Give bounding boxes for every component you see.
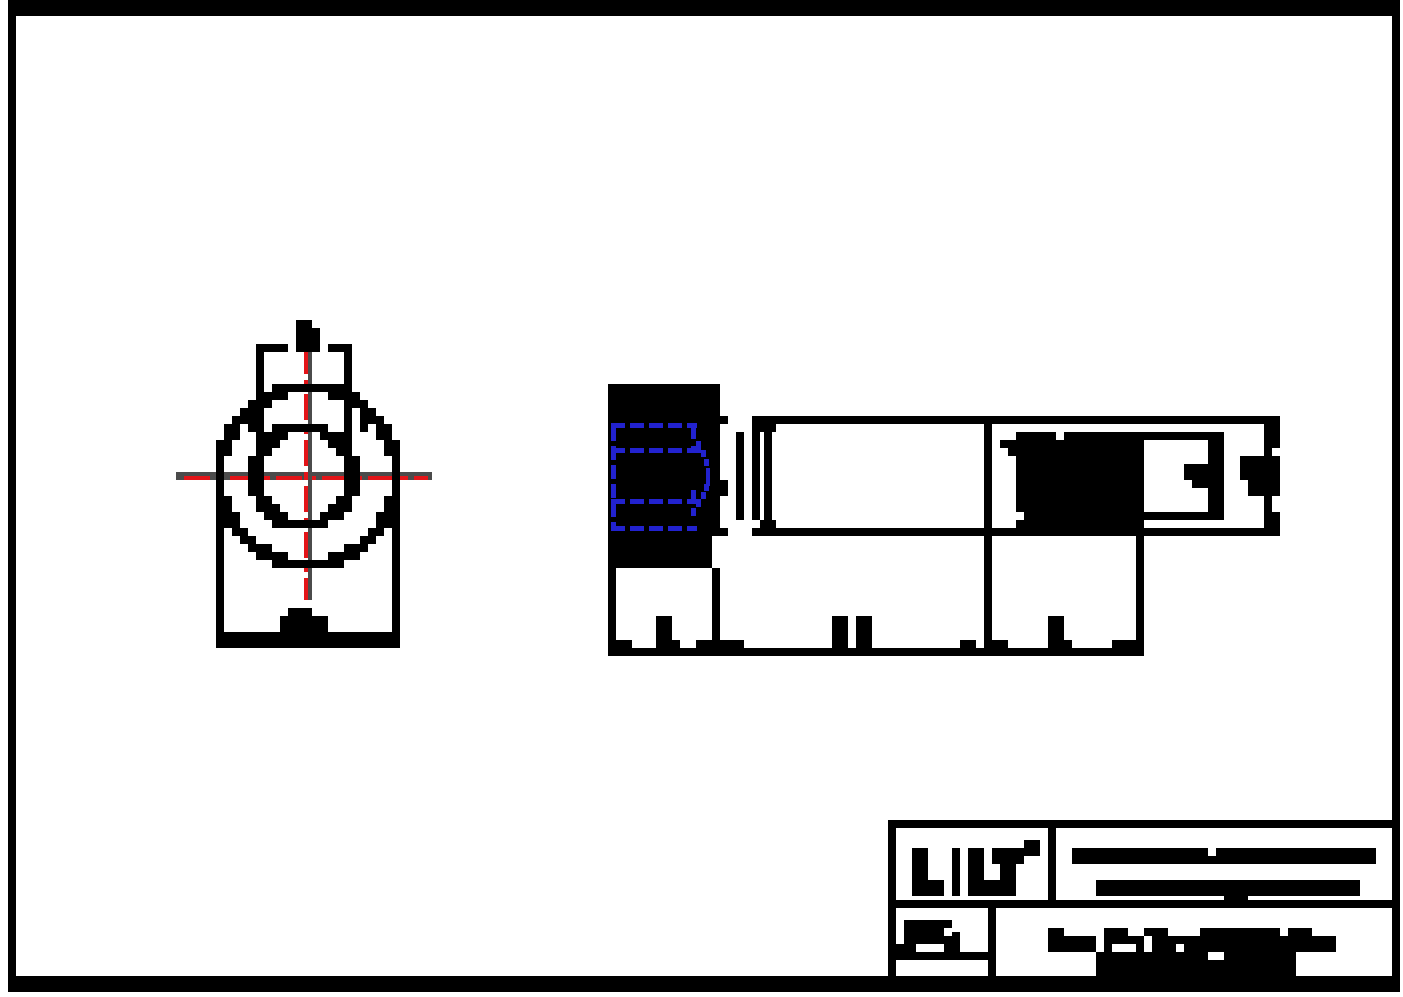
dim A extension lines (256, 352, 352, 448)
title text bar 1 (1072, 848, 1376, 864)
shank/thread boundary line (984, 424, 992, 528)
part number text line 2 (1096, 952, 1296, 976)
LILY logo (912, 840, 1040, 896)
dim C text blob (280, 608, 328, 632)
side dim extension head-right (712, 568, 720, 648)
neck corner bits (752, 424, 776, 528)
thread minor box (1136, 432, 1224, 520)
side dim extension at thread box (1136, 532, 1144, 648)
part number text line 1 (1048, 928, 1336, 952)
side dim stubs (656, 616, 1064, 648)
dim B extension lines (248, 408, 368, 432)
neck ring 2 (752, 432, 760, 520)
thread blob notch (1016, 432, 1064, 520)
title block divider vertical (logo cell) (1048, 828, 1056, 900)
thread runout steps (1000, 440, 1016, 456)
thread end cap (1240, 416, 1280, 536)
head (side view, solid) (608, 384, 720, 568)
side dim extension head-left (608, 568, 616, 648)
neck bottom line (716, 528, 992, 536)
dim C dimension line (216, 632, 400, 648)
thread black blob (1016, 432, 1144, 528)
side dim line (608, 648, 1144, 656)
projection symbol (896, 920, 960, 952)
head outer circle d176 (216, 384, 400, 568)
under-head mark (720, 480, 728, 496)
centerline horizontal (left view) (176, 472, 432, 480)
thread top line (992, 416, 1280, 424)
title text bar 2 (1096, 880, 1360, 908)
centerline vertical (left view) (304, 344, 312, 600)
title block left edge (888, 820, 896, 976)
projection cell bottom line (888, 952, 996, 960)
thread circle d88 (256, 424, 352, 528)
hex socket hidden lines (blue) (611, 423, 710, 531)
title block top line (888, 820, 1400, 828)
dim A text blob (296, 320, 320, 352)
side dim extension at thread start (984, 536, 992, 648)
neck ring 1 (736, 432, 744, 520)
dim C extension lines (216, 440, 400, 648)
thread bottom line (984, 528, 1280, 536)
title block divider horizontal (888, 900, 1400, 908)
shank left edge (764, 424, 772, 528)
shoulder circle d104 (248, 424, 360, 528)
dim A dimension line (256, 344, 352, 352)
side dim line upper bits (608, 640, 1136, 648)
neck top line (716, 416, 992, 424)
projection cell divider (988, 908, 996, 976)
